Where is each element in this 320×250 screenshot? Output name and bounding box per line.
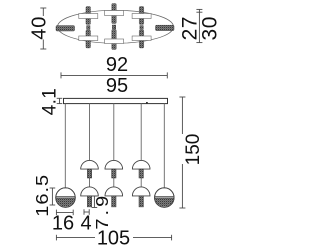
svg-text:4: 4 xyxy=(80,213,91,235)
svg-text:30: 30 xyxy=(198,16,221,40)
svg-text:92: 92 xyxy=(106,54,128,76)
svg-text:105: 105 xyxy=(97,228,130,250)
svg-text:150: 150 xyxy=(183,134,204,166)
svg-text:7.9: 7.9 xyxy=(93,193,113,230)
svg-text:40: 40 xyxy=(29,16,51,40)
svg-text:95: 95 xyxy=(106,75,128,97)
svg-text:4.1: 4.1 xyxy=(39,88,60,115)
svg-text:16.5: 16.5 xyxy=(33,174,53,217)
svg-text:16: 16 xyxy=(52,213,74,235)
